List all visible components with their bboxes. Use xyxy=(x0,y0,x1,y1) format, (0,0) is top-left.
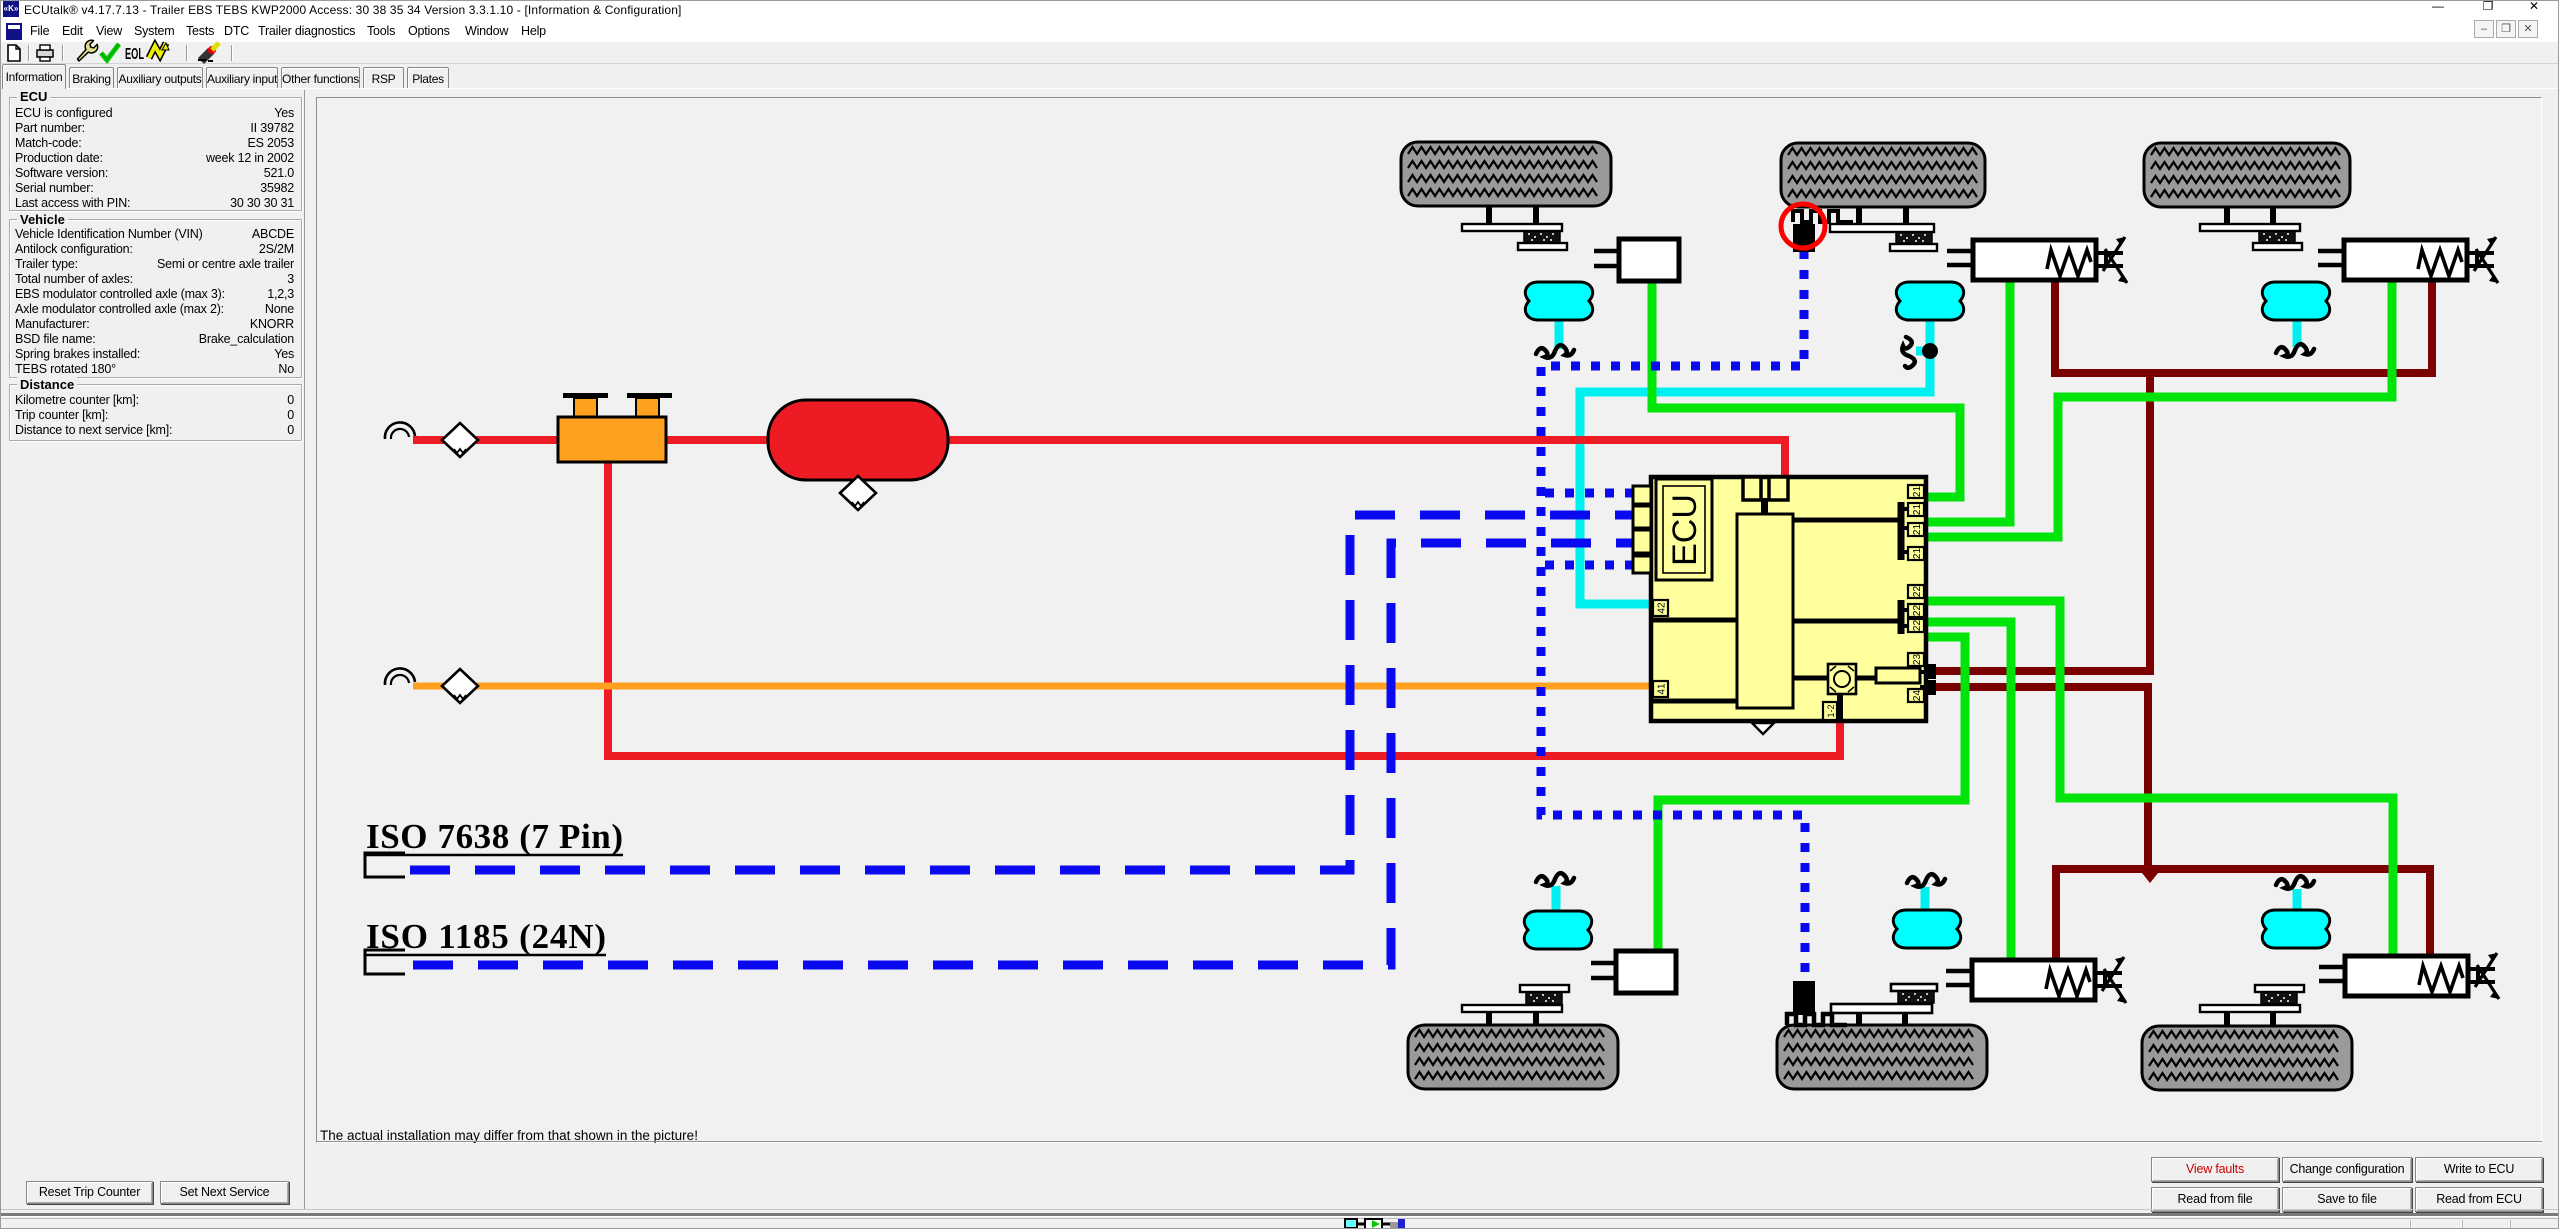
svg-text:23: 23 xyxy=(1912,654,1923,666)
svg-text:41: 41 xyxy=(1657,683,1668,695)
svg-text:22: 22 xyxy=(1912,620,1923,632)
svg-text:24: 24 xyxy=(1912,690,1923,702)
svg-text:21: 21 xyxy=(1912,524,1923,536)
svg-text:42: 42 xyxy=(1657,602,1668,614)
svg-text:21: 21 xyxy=(1912,548,1923,560)
svg-text:ISO 7638 (7 Pin): ISO 7638 (7 Pin) xyxy=(366,817,623,856)
svg-text:22: 22 xyxy=(1912,605,1923,617)
svg-text:1-2: 1-2 xyxy=(1826,704,1836,717)
svg-text:21: 21 xyxy=(1912,504,1923,516)
svg-text:22: 22 xyxy=(1912,586,1923,598)
svg-text:21: 21 xyxy=(1912,486,1923,498)
svg-text:EOL: EOL xyxy=(125,46,144,63)
svg-text:ECU: ECU xyxy=(1666,494,1704,566)
